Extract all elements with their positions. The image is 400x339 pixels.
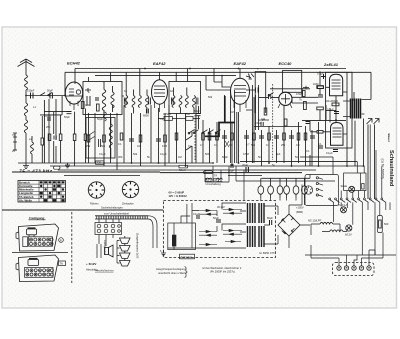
inline cap on bus bbox=[228, 164, 234, 173]
line y126 bbox=[254, 126, 302, 128]
riser EAF42 second bbox=[222, 69, 240, 88]
resistor row r13 bbox=[283, 133, 286, 140]
cap row c5 bbox=[259, 136, 264, 138]
svg-text:mit bei Wechselstr.-Gleichrich: mit bei Wechselstr.-Gleichrichter 2 bbox=[202, 266, 242, 270]
resistor row r8 bbox=[208, 133, 211, 140]
resistor row r6 bbox=[175, 133, 178, 140]
svg-text:1M: 1M bbox=[178, 155, 182, 159]
svg-text:+105V: +105V bbox=[296, 206, 304, 210]
coupling cap EL41 top bbox=[317, 72, 326, 80]
svg-text:20µF: 20µF bbox=[242, 163, 248, 167]
ballast wires bbox=[174, 204, 190, 250]
cap row c6 bbox=[274, 136, 279, 138]
top bus 3 bbox=[95, 75, 236, 77]
riser ECH42 to bus bbox=[65, 69, 75, 96]
output transformer frame bbox=[343, 72, 371, 116]
wires cable to psu bbox=[148, 216, 157, 248]
coupling cap EL41 bottom bbox=[326, 150, 338, 156]
svg-text:4.7: 4.7 bbox=[246, 143, 250, 147]
ground bus A bbox=[18, 162, 357, 163]
tube EAF42 bbox=[152, 80, 168, 112]
resistor column 7k bbox=[299, 98, 306, 110]
svg-text:Sockelschaltungen: Sockelschaltungen bbox=[101, 206, 123, 210]
cap row c2 bbox=[156, 139, 161, 141]
svg-text:470: 470 bbox=[85, 103, 90, 107]
capacitor 50pF below ECH42 bbox=[64, 112, 72, 120]
svg-text:0.1µF: 0.1µF bbox=[160, 152, 167, 156]
svg-text:Schauinsland: Schauinsland bbox=[388, 150, 394, 187]
svg-text:50pF: 50pF bbox=[64, 115, 70, 119]
cap 20uF on bus bbox=[242, 163, 248, 172]
svg-text:Anschlußschnur: Anschlußschnur bbox=[95, 269, 114, 273]
line y120 right bbox=[302, 120, 346, 122]
svg-text:50pF: 50pF bbox=[97, 117, 103, 121]
resistor under ECH42 bbox=[81, 102, 90, 109]
svg-text:50pF: 50pF bbox=[47, 89, 53, 93]
wire risers EAF stage bbox=[159, 105, 197, 166]
svg-text:Umschaltung: Umschaltung bbox=[206, 182, 222, 186]
vibrator transformer lower bbox=[248, 226, 265, 247]
svg-text:R: R bbox=[60, 238, 62, 242]
socket small in bank bbox=[304, 186, 312, 194]
bridge rectifier bbox=[278, 214, 300, 236]
oscillator coil pair bbox=[102, 82, 114, 115]
chassis drawing lower bbox=[16, 255, 59, 282]
svg-text:Ausgl.Frequenzverlegung: Ausgl.Frequenzverlegung bbox=[156, 267, 186, 271]
svg-text:+ 6/12V: + 6/12V bbox=[86, 262, 96, 266]
capacitor 50pF input bbox=[47, 89, 53, 99]
svg-text:0.1: 0.1 bbox=[214, 143, 218, 147]
riser EAF42 bbox=[159, 72, 161, 80]
resistor row r12 bbox=[268, 133, 271, 140]
svg-text:0.1: 0.1 bbox=[118, 142, 122, 146]
resistor row r1 bbox=[87, 135, 90, 142]
svg-text:6/12V: 6/12V bbox=[345, 233, 352, 237]
svg-text:TA: TA bbox=[60, 262, 64, 266]
svg-text:NS 1Ω/LPF: NS 1Ω/LPF bbox=[308, 219, 322, 223]
value labels row bbox=[86, 142, 300, 148]
svg-text:Zungenfrequenz 2x50: Zungenfrequenz 2x50 bbox=[136, 233, 140, 259]
resistor left column bbox=[41, 138, 44, 145]
extra wires EAF42b top bbox=[206, 69, 231, 91]
ECC40 shield box bbox=[283, 70, 302, 92]
label 6V 600P bbox=[169, 191, 188, 199]
EL41 mid rail bbox=[326, 110, 336, 112]
svg-text:1M: 1M bbox=[229, 143, 233, 147]
label 6V 12V Umschaltung bbox=[206, 178, 222, 186]
label Ausgleichsspannung bbox=[156, 267, 187, 275]
vertical wire risers middle band bbox=[89, 110, 118, 170]
svg-text:TA: TA bbox=[214, 174, 217, 178]
inline fuse 7ohm on bus bbox=[96, 161, 105, 165]
svg-text:Uk.-Welle: Uk.-Welle bbox=[19, 198, 32, 202]
svg-text:0.1µF: 0.1µF bbox=[193, 212, 200, 216]
socket diagram right bbox=[122, 181, 139, 205]
svg-text:2xEL41: 2xEL41 bbox=[323, 62, 339, 67]
cap row c4 bbox=[244, 136, 249, 138]
svg-text:6V 0.1A: 6V 0.1A bbox=[338, 203, 347, 207]
coil L2 secondary bbox=[31, 136, 34, 163]
label circle R bbox=[59, 238, 64, 243]
svg-text:0.1: 0.1 bbox=[306, 149, 310, 153]
svg-text:1M: 1M bbox=[137, 144, 141, 148]
IF coil pair T1a bbox=[124, 72, 135, 113]
svg-text:EAF42: EAF42 bbox=[153, 61, 166, 66]
right margin small parts column bbox=[310, 72, 323, 166]
cap row c8 bbox=[310, 136, 315, 138]
capacitor trimmer left bbox=[13, 133, 17, 150]
svg-text:50k: 50k bbox=[133, 152, 138, 156]
resistor row r3 bbox=[120, 133, 123, 140]
cap 60pF detector bbox=[194, 106, 201, 129]
inner box ballast bbox=[168, 223, 196, 250]
svg-text:Freilegung: Freilegung bbox=[29, 216, 45, 220]
inline oval on bus bbox=[54, 166, 61, 169]
svg-text:50pF: 50pF bbox=[222, 155, 228, 159]
svg-text:50µF: 50µF bbox=[213, 216, 219, 220]
label 6/12V bbox=[86, 262, 98, 272]
transformer out wires bbox=[264, 206, 278, 244]
svg-text:5µ: 5µ bbox=[272, 163, 275, 167]
svg-text:0.5: 0.5 bbox=[296, 143, 300, 147]
antenna bbox=[18, 59, 35, 96]
extra small labels bbox=[12, 92, 322, 153]
svg-text:Bauer: Bauer bbox=[387, 134, 391, 143]
small output coils near TA bbox=[206, 178, 223, 182]
svg-text:60pF: 60pF bbox=[194, 109, 200, 113]
ballast resistor dark bbox=[172, 235, 176, 247]
svg-text:Gl. B250 C75: Gl. B250 C75 bbox=[259, 251, 275, 255]
svg-text:500: 500 bbox=[384, 222, 389, 226]
resistor right of ECC40 bbox=[303, 91, 306, 97]
ground main bbox=[23, 163, 29, 169]
svg-text:0.1µF: 0.1µF bbox=[327, 108, 334, 112]
resistor row r14 bbox=[297, 133, 300, 140]
psu terminals left bbox=[160, 249, 166, 256]
vertical brand text bbox=[381, 134, 394, 187]
socket diagram left bbox=[88, 182, 104, 206]
IF can T2 bbox=[169, 82, 201, 114]
resistor osc bbox=[97, 104, 100, 111]
choke fuse row bbox=[258, 178, 310, 198]
extra verticals right band bbox=[326, 92, 355, 166]
switch antenna bbox=[40, 93, 52, 96]
vibrator transformer upper bbox=[248, 203, 265, 223]
cap 50pF mid bbox=[258, 118, 264, 126]
IF coil pair T1b bbox=[138, 69, 150, 114]
wire top psu row bbox=[236, 166, 335, 205]
pilot lamp lower bbox=[345, 225, 352, 237]
psu dashed enclosure bbox=[164, 201, 276, 258]
switch bank box bbox=[305, 175, 339, 206]
AVC dashed vertical bbox=[272, 84, 274, 160]
svg-text:ECC40: ECC40 bbox=[279, 61, 293, 66]
svg-text:500: 500 bbox=[205, 152, 210, 156]
resistor row r4 bbox=[139, 135, 142, 142]
top bus 2 bbox=[65, 71, 371, 73]
svg-text:0.1µF: 0.1µF bbox=[255, 121, 262, 125]
svg-text:6V = G 600/P: 6V = G 600/P bbox=[169, 191, 185, 195]
top bus 1 bbox=[75, 68, 346, 70]
separator small bbox=[12, 252, 68, 254]
svg-text:4.7MΩ: 4.7MΩ bbox=[163, 112, 171, 116]
svg-text:1M: 1M bbox=[230, 110, 234, 114]
bus bold lower bbox=[12, 171, 302, 174]
inline resistor on bus second bbox=[204, 171, 213, 174]
cap 50uF psu bbox=[213, 216, 221, 222]
terminal strip dashed bbox=[333, 250, 376, 276]
input coil L1 bbox=[24, 96, 27, 164]
right wires below contacts bbox=[334, 202, 386, 255]
bottom right bus bbox=[305, 202, 396, 255]
speaker trapezoid stack bbox=[117, 236, 130, 266]
speaker small bbox=[105, 245, 114, 257]
svg-text:Zerhacker: Zerhacker bbox=[181, 255, 193, 259]
switch contact 7a upper bbox=[188, 130, 194, 135]
left mid component row bbox=[48, 134, 87, 141]
IF3 verticals bbox=[246, 85, 279, 163]
switch contact 7a bbox=[186, 132, 192, 163]
resistor row r2 bbox=[103, 135, 106, 142]
wires osc box bbox=[65, 72, 124, 96]
svg-text:Lautsprecher: Lautsprecher bbox=[103, 240, 107, 255]
svg-text:0.1µF: 0.1µF bbox=[99, 152, 106, 156]
cap row c1 bbox=[129, 139, 134, 141]
pilot lamp 6V bbox=[338, 203, 347, 213]
filter choke coil 2 bbox=[322, 230, 347, 232]
wires bottom right connect bbox=[311, 224, 383, 258]
resistor box 500 ohm bbox=[378, 216, 389, 233]
filter choke coil 1 bbox=[308, 219, 340, 225]
svg-text:ECH42: ECH42 bbox=[67, 61, 81, 66]
extra small labels row2 bbox=[29, 68, 310, 215]
wires left mid bbox=[40, 96, 86, 166]
svg-text:0.1: 0.1 bbox=[318, 142, 322, 146]
svg-text:150pF: 150pF bbox=[27, 89, 35, 93]
band switch contacts row bbox=[193, 130, 220, 134]
svg-text:25p: 25p bbox=[46, 125, 51, 129]
resistor left EL41 lower bbox=[310, 131, 330, 134]
oscillator padder caps bbox=[85, 88, 99, 106]
EL41 shield box bbox=[326, 72, 352, 148]
cap near ECC40 bbox=[256, 88, 271, 100]
svg-text:zum Umschalterkabel: zum Umschalterkabel bbox=[104, 212, 129, 216]
bus D lower bbox=[64, 175, 262, 177]
resistor row r9 bbox=[216, 133, 219, 140]
ground bus C bbox=[58, 169, 316, 171]
svg-text:ZF = 473 kHz: ZF = 473 kHz bbox=[18, 168, 53, 173]
IF can 4 box bbox=[255, 72, 266, 114]
riser T2 bbox=[176, 69, 187, 82]
tube EAF42 second bbox=[231, 78, 250, 112]
svg-text:25k: 25k bbox=[86, 144, 91, 148]
wires EL41 stage bbox=[326, 72, 347, 166]
svg-text:12V = G 600/12: 12V = G 600/12 bbox=[169, 194, 188, 198]
dashed vertical AVC2 bbox=[194, 115, 196, 160]
contact near ECC40 bbox=[268, 92, 273, 96]
ground mid bbox=[65, 163, 70, 168]
cap 0.1 mid bbox=[327, 108, 339, 114]
connector block bbox=[95, 219, 122, 235]
svg-text:(Pri 2000F b/s 2537c): (Pri 2000F b/s 2537c) bbox=[210, 270, 235, 274]
svg-text:50k: 50k bbox=[208, 95, 213, 99]
ground lead psu left bbox=[168, 247, 192, 249]
resistor row r15 bbox=[304, 133, 307, 140]
curly brace bbox=[185, 267, 188, 278]
band table bbox=[18, 180, 66, 202]
svg-text:0.1µF: 0.1µF bbox=[326, 151, 333, 155]
wires ECC40 bbox=[270, 89, 318, 98]
zerhacker label box bbox=[180, 254, 195, 259]
cap row c3 bbox=[222, 136, 227, 138]
svg-text:0.1: 0.1 bbox=[266, 143, 270, 147]
svg-text:Röhren: Röhren bbox=[90, 202, 99, 206]
cap column 0.1 lower bbox=[303, 86, 310, 124]
ground bus B bbox=[50, 165, 364, 167]
svg-text:(6BM): (6BM) bbox=[296, 210, 303, 214]
heavy zigzag wire bbox=[205, 123, 235, 137]
svg-text:40 Ω/2: 40 Ω/2 bbox=[217, 205, 225, 209]
chassis drawing upper bbox=[16, 224, 59, 251]
right vertical feeds bbox=[300, 125, 382, 199]
dial lamp bbox=[341, 184, 355, 192]
output transformer core bbox=[351, 99, 361, 119]
tube EL41 second bbox=[331, 123, 344, 146]
wire antenna input bbox=[26, 95, 65, 97]
svg-text:0.5M: 0.5M bbox=[296, 92, 302, 96]
cap row c7 bbox=[289, 136, 294, 138]
inline resistor on bus bbox=[179, 165, 188, 172]
resistor 450k bbox=[325, 99, 339, 106]
resistor grid EL41 bbox=[313, 82, 324, 89]
switch contact row bbox=[329, 198, 386, 202]
svg-text:(ca Nr. 52053): (ca Nr. 52053) bbox=[381, 159, 385, 179]
svg-text:6800: 6800 bbox=[143, 114, 149, 118]
svg-text:50k: 50k bbox=[251, 143, 256, 147]
volume pot bbox=[225, 141, 229, 147]
cable band hatched bbox=[95, 216, 148, 219]
svg-text:7kΩ: 7kΩ bbox=[185, 112, 190, 116]
svg-text:Zerhacker: Zerhacker bbox=[122, 202, 134, 206]
separator line bbox=[2, 209, 163, 211]
resistor row r7 bbox=[202, 133, 205, 140]
svg-text:50k: 50k bbox=[101, 144, 106, 148]
resistor column ECC40-EL41 bbox=[261, 108, 267, 121]
junction dots bbox=[25, 68, 364, 167]
tube EL41 first bbox=[330, 74, 343, 96]
label box TA bbox=[59, 261, 66, 266]
svg-text:Skala: Skala bbox=[341, 184, 348, 188]
vibrator contacts upper bbox=[199, 208, 242, 245]
label Freilegung bbox=[29, 216, 46, 220]
wire risers mid bbox=[203, 97, 319, 166]
oscillator shield box bbox=[83, 82, 122, 115]
dark vertical pair mid bbox=[231, 90, 237, 163]
svg-text:0.05: 0.05 bbox=[162, 144, 168, 148]
svg-text:25k: 25k bbox=[281, 143, 286, 147]
psu feed wires from schematic bbox=[205, 166, 229, 182]
extra wires detector area bbox=[225, 95, 319, 123]
tube ECC40 bbox=[278, 92, 292, 108]
resistor row r11 bbox=[253, 133, 256, 140]
wires below connector bbox=[97, 235, 113, 259]
svg-text:8µF: 8µF bbox=[276, 152, 281, 156]
psu wires bbox=[192, 203, 246, 248]
svg-text:300: 300 bbox=[118, 155, 123, 159]
wire left verticals bbox=[42, 99, 56, 163]
tube ECH42 bbox=[65, 82, 82, 110]
capacitor left mid bbox=[44, 114, 52, 120]
AGC line with resistors bbox=[158, 112, 200, 120]
speaker arrows bbox=[367, 119, 380, 125]
wires to output down bbox=[364, 119, 375, 200]
resistor under ECC40 bbox=[284, 119, 287, 126]
svg-text:4.7: 4.7 bbox=[200, 143, 204, 147]
capacitor 150pF bbox=[27, 89, 35, 99]
resistor row r10 bbox=[231, 133, 234, 140]
dashed divider vertical bbox=[71, 212, 73, 283]
wire risers IF cans bbox=[124, 105, 151, 166]
svg-text:unterbricht oben u.Werte: unterbricht oben u.Werte bbox=[158, 271, 187, 275]
oscillator coil box lower bbox=[86, 112, 115, 158]
cap 6800 bbox=[143, 109, 149, 118]
bridge wires bbox=[289, 185, 310, 249]
svg-text:EAF42: EAF42 bbox=[234, 61, 247, 66]
relay box right bbox=[344, 173, 366, 191]
resistor row r5 bbox=[164, 135, 167, 142]
svg-text:80µF: 80µF bbox=[267, 216, 273, 220]
cap 80uF bbox=[267, 216, 273, 225]
svg-text:460+360pF: 460+360pF bbox=[325, 99, 339, 103]
grid cap detail bbox=[246, 74, 254, 80]
svg-text:0.5M: 0.5M bbox=[243, 152, 249, 156]
label mit bei bbox=[202, 266, 242, 274]
bold grid riser bbox=[224, 96, 226, 123]
cap 0.1 psu bbox=[193, 212, 200, 218]
svg-text:62mA: 62mA bbox=[179, 168, 186, 172]
